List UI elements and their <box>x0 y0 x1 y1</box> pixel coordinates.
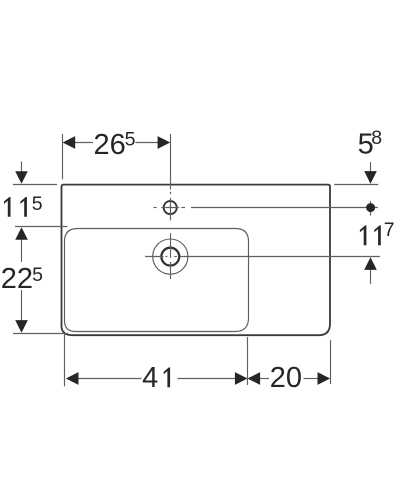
svg-text:20: 20 <box>270 362 302 394</box>
svg-text:8: 8 <box>371 127 382 149</box>
svg-text:5: 5 <box>32 264 43 286</box>
svg-text:5: 5 <box>125 129 136 151</box>
svg-text:26: 26 <box>94 129 126 161</box>
svg-text:22: 22 <box>1 263 33 295</box>
svg-text:5: 5 <box>32 193 43 215</box>
svg-text:4: 4 <box>142 362 158 394</box>
svg-text:7: 7 <box>384 219 395 241</box>
